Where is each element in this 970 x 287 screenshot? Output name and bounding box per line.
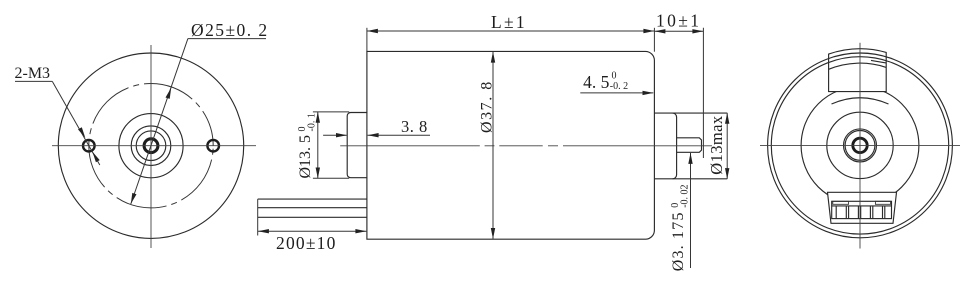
svg-text:2-M3: 2-M3	[15, 65, 51, 82]
left view inner circle r32	[119, 114, 183, 178]
rear view connector pin dividers	[836, 206, 885, 219]
left view mounting hole M3 left	[83, 140, 95, 152]
svg-text:Ø13. 5: Ø13. 5	[297, 135, 314, 179]
dimension Ø3.175 arrowhead	[688, 153, 692, 164]
rear view connector housing	[828, 192, 897, 223]
rear view connector cells top line	[832, 205, 892, 207]
left view bolt circle Ø25 (dash-dot)	[89, 84, 213, 208]
svg-text:4. 5: 4. 5	[583, 72, 610, 92]
lead wire top	[258, 198, 367, 200]
dimension Ø25±0.2 underline	[188, 38, 266, 40]
label 2-M3 leader line through hole	[52, 81, 100, 165]
dimension Ø13.5 text (rotated)	[297, 113, 318, 178]
dimension Ø13max arrowhead top	[725, 113, 729, 124]
dimension L±1 arrowhead left	[367, 29, 378, 33]
wire end cap / extension line	[257, 199, 259, 235]
rear view circle C outer	[844, 129, 877, 162]
dimension Ø13.5 line	[317, 112, 319, 178]
motor body outline (side view)	[367, 51, 655, 239]
rear view connector notch left	[833, 201, 849, 204]
dimension L±1 extension line right	[653, 28, 655, 52]
label 2-M3 arrowhead upper	[78, 127, 85, 138]
dimension Ø37.8 line	[492, 52, 494, 239]
dimension 10±1 arrowhead right	[692, 29, 703, 33]
svg-text:Ø13max: Ø13max	[707, 115, 726, 175]
left view mounting hole M3 right	[207, 140, 219, 152]
svg-text:10±1: 10±1	[656, 10, 701, 30]
dimension Ø37.8 arrowhead bottom	[491, 228, 495, 239]
dimension Ø13max text (rotated)	[707, 115, 726, 175]
left view outer circle Ø37.8 housing	[58, 53, 243, 238]
dimension Ø13.5 extension line top	[313, 111, 349, 113]
dimension 3.8 left tail	[323, 134, 347, 136]
dimension Ø25±0.2 arrowhead lower	[131, 193, 137, 204]
dimension Ø13.5 extension line bottom	[313, 177, 349, 179]
axis centerline	[340, 145, 712, 147]
dimension Ø37.8 arrowhead top	[491, 52, 495, 63]
dimension L±1 extension line left	[366, 28, 368, 52]
rear view shaft bold ring	[853, 138, 867, 152]
svg-text:Ø37. 8: Ø37. 8	[478, 80, 495, 133]
dimension Ø25±0.2 diameter line	[131, 39, 188, 204]
rear view tab crease mark	[871, 60, 886, 63]
dimension 3.8 arrowhead right	[368, 133, 379, 137]
svg-text:L±1: L±1	[491, 12, 527, 32]
dimension 200±10 arrowhead right	[355, 229, 366, 233]
dimension 4.5 arrowhead	[643, 91, 654, 95]
left view vertical centerline	[150, 45, 152, 248]
dimension 3.8 arrowhead left	[336, 133, 347, 137]
dimension Ø13.5 arrowhead bottom	[316, 168, 320, 179]
dimension L±1 line	[367, 30, 655, 32]
rear view horizontal centerline	[760, 144, 960, 146]
front flange boss Ø13.5	[347, 113, 367, 178]
rear view capacitor bottom arc	[832, 98, 889, 104]
dimension Ø13max arrowhead bottom	[725, 168, 729, 179]
label 2-M3 underline	[15, 80, 52, 82]
rear view outer circle	[768, 53, 953, 238]
dimension Ø3.175 leader line	[690, 153, 692, 268]
rear view top tab (capacitor cover)	[829, 49, 887, 92]
dimension Ø3.175 text (rotated)	[670, 184, 691, 271]
dimension Ø37.8 text (rotated)	[478, 80, 495, 133]
dimension 4.5 line	[580, 92, 653, 94]
rear boss Ø13 top edge + extension	[654, 112, 727, 114]
left view inner circle r15	[136, 131, 166, 161]
svg-text:3. 8: 3. 8	[401, 117, 428, 136]
svg-text:Ø3. 175: Ø3. 175	[670, 211, 687, 271]
svg-text:200±10: 200±10	[276, 233, 337, 253]
svg-text:-0. 2: -0. 2	[610, 81, 628, 92]
rear view connector inner rect	[832, 201, 892, 218]
rear boss Ø13 bottom edge + extension	[654, 178, 727, 180]
dimension 10±1 arrowhead left	[654, 29, 665, 33]
dimension L±1 arrowhead right	[643, 29, 654, 33]
left view horizontal centerline	[52, 145, 256, 147]
svg-text:-0. 1: -0. 1	[306, 113, 317, 131]
rear view tab inner arc	[829, 63, 887, 69]
rear view end-bell circle A r59	[801, 86, 919, 204]
dimension Ø13.5 arrowhead top	[316, 112, 320, 123]
rear view circle C inner	[845, 131, 875, 161]
rear view connector notch right	[875, 201, 890, 204]
svg-text:Ø25±0. 2: Ø25±0. 2	[191, 20, 269, 40]
label 2-M3 arrowhead lower	[92, 152, 99, 163]
rear view circle B r33	[827, 112, 893, 178]
lead wire bottom	[258, 216, 367, 218]
left view shaft boss bold ring	[144, 139, 158, 153]
dimension Ø13max line	[726, 113, 728, 179]
left view inner circle r20	[131, 126, 171, 166]
shaft Ø3.175 (side view)	[677, 138, 702, 153]
lead wire middle	[258, 207, 367, 209]
dimension 10±1 extension line right	[702, 28, 704, 158]
dimension 200±10 arrowhead left	[258, 229, 269, 233]
dimension 3.8 right line	[368, 134, 430, 136]
dimension 200±10 line	[258, 230, 366, 232]
rear boss right edge with corners	[673, 113, 677, 179]
rear view rim circle	[771, 57, 948, 234]
svg-text:-0. 02: -0. 02	[679, 184, 690, 207]
dimension 10±1 line	[654, 30, 703, 32]
dimension Ø25±0.2 arrowhead upper	[166, 88, 172, 99]
svg-text:0: 0	[612, 71, 617, 82]
rear view vertical centerline	[859, 43, 861, 249]
